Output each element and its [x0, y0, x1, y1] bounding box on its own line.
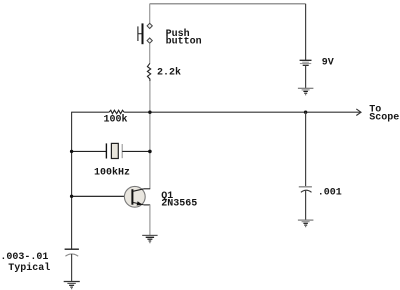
svg-text:button: button: [166, 35, 202, 47]
wire main horizontal rail right segment to scope: [124, 111, 360, 113]
arrow to scope: [356, 109, 361, 116]
battery 9V: [300, 60, 312, 65]
junction dot left rail/base: [70, 195, 73, 198]
svg-text:100k: 100k: [104, 114, 128, 126]
capacitor .003-.01: [65, 249, 79, 256]
wire scope junction down to .001 cap: [305, 112, 307, 186]
wire emitter down to ground: [149, 205, 151, 235]
junction dot left rail/crystal: [70, 150, 73, 153]
resistor 100k: [109, 110, 124, 114]
transistor Q1: [124, 186, 150, 207]
junction dot rail/2.2k: [148, 111, 151, 114]
wire crystal row left: [72, 150, 107, 152]
ground battery: [298, 88, 314, 95]
crystal 100kHz: [106, 143, 122, 158]
wire .001 cap to ground: [305, 190, 307, 220]
svg-text:Typical: Typical: [8, 262, 50, 274]
svg-text:2N3565: 2N3565: [161, 199, 197, 210]
ground bottom left: [64, 282, 80, 289]
svg-text:2.2k: 2.2k: [157, 66, 181, 78]
ground .001: [298, 220, 314, 227]
wire left rail vertical: [71, 112, 73, 250]
junction dot rail/.001 branch: [304, 111, 307, 114]
capacitor .001: [299, 187, 312, 193]
wire push button to 2.2k resistor: [149, 43, 151, 63]
wire top rail: [150, 3, 306, 5]
resistor 2.2k: [147, 63, 150, 81]
push button switch: [138, 23, 152, 44]
wire main horizontal rail left segment: [72, 111, 109, 113]
wire battery to ground: [305, 65, 307, 88]
wire 2.2k down through junctions to collector: [149, 81, 151, 189]
wire base row: [72, 195, 132, 197]
svg-text:.001: .001: [318, 188, 342, 199]
svg-text:9V: 9V: [322, 58, 334, 69]
svg-text:Scope: Scope: [369, 112, 399, 123]
ground emitter: [142, 235, 157, 242]
wire from top rail down to push button: [149, 4, 151, 23]
svg-text:.003-.01: .003-.01: [0, 252, 48, 263]
svg-text:100kHz: 100kHz: [94, 166, 130, 178]
wire crystal to center rail: [122, 150, 150, 152]
junction dot crystal/center rail: [148, 150, 152, 154]
wire battery branch from top rail: [305, 4, 307, 60]
wire bottom cap to ground: [71, 254, 73, 281]
